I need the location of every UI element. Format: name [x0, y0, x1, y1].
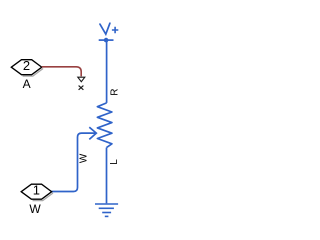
wire: resistor to ground [106, 148, 108, 204]
power node V+ [99, 23, 119, 42]
ground [95, 204, 118, 216]
svg-text:L: L [109, 159, 120, 165]
svg-text:A: A [23, 77, 31, 91]
wire: red unconnected from tag A [42, 67, 81, 77]
node W tag: hexagon 1 [21, 183, 53, 201]
svg-text:2: 2 [23, 58, 30, 73]
resistor R (potentiometer zigzag) [97, 103, 112, 148]
wire: wiper W [52, 133, 96, 191]
svg-text:1: 1 [33, 183, 40, 198]
x marker [79, 86, 84, 90]
svg-text:W: W [29, 202, 41, 216]
unconnected arrow [78, 77, 85, 82]
wiper arrow into resistor [89, 127, 96, 139]
wire: V+ down to resistor [106, 41, 108, 103]
node A tag: hexagon 2 [11, 58, 43, 76]
svg-text:W: W [78, 153, 89, 163]
svg-text:R: R [110, 88, 121, 95]
